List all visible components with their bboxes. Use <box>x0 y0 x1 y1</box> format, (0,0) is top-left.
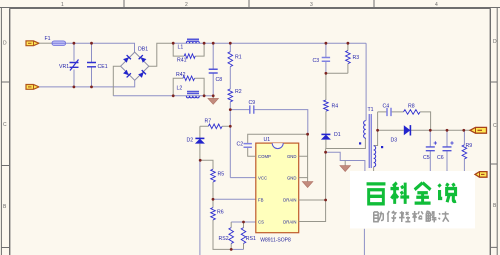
svg-text:C5: C5 <box>423 155 430 161</box>
resistor R8 (snubber) <box>404 103 431 130</box>
wire bridge DC+ jog <box>149 43 173 66</box>
svg-text:R2: R2 <box>235 89 242 95</box>
inductor L1 <box>173 39 204 50</box>
wire DC- return to L2 <box>113 95 173 97</box>
svg-text:VR1: VR1 <box>59 64 69 70</box>
svg-text:2: 2 <box>185 2 188 8</box>
svg-text:R4: R4 <box>332 104 339 110</box>
svg-text:CS: CS <box>258 219 264 224</box>
svg-text:R42: R42 <box>176 72 186 78</box>
svg-text:D3: D3 <box>391 138 398 144</box>
svg-text:D: D <box>3 41 7 47</box>
svg-text:DRAIN: DRAIN <box>283 219 296 224</box>
capacitor C5 <box>423 130 437 171</box>
svg-text:R6: R6 <box>217 210 224 216</box>
resistor R7 <box>200 119 230 129</box>
varistor VR1 <box>59 43 79 87</box>
resistor R5 <box>200 160 224 199</box>
output connector P4 (V-) <box>475 172 487 178</box>
svg-text:RS2: RS2 <box>219 236 229 242</box>
svg-text:FB: FB <box>258 198 264 203</box>
capacitor C6 <box>437 130 454 171</box>
wire AC top rail <box>66 43 135 52</box>
wire aux link <box>326 152 365 171</box>
svg-text:VCC: VCC <box>258 175 267 180</box>
wire secondary output line <box>378 129 470 131</box>
capacitor C9 <box>230 100 307 134</box>
wire DC- after L2 to C8 node <box>204 95 213 97</box>
resistor R1 <box>228 43 242 89</box>
svg-text:3: 3 <box>310 2 313 8</box>
diode D2 <box>187 126 205 160</box>
wire DRAIN pins <box>299 149 326 222</box>
transformer T1 <box>359 43 383 171</box>
wire aux below watermark <box>363 229 365 255</box>
svg-text:C8: C8 <box>216 77 223 83</box>
svg-text:L2: L2 <box>177 85 183 91</box>
svg-text:T1: T1 <box>368 107 374 113</box>
bridge rectifier DB1 <box>121 47 149 81</box>
inductor L2 <box>173 85 204 98</box>
resistor R9 <box>462 130 472 171</box>
ground (IC GND) <box>302 182 313 188</box>
wire bridge DC- jog <box>113 66 120 96</box>
wire drain to primary <box>326 138 366 148</box>
op-amp U1 controller W8911-SOP8 <box>256 137 299 244</box>
wire sense bottom <box>231 248 243 250</box>
svg-text:1: 1 <box>61 2 64 8</box>
svg-text:C: C <box>493 123 497 129</box>
output connector P3 (V+) <box>470 127 487 133</box>
svg-text:R5: R5 <box>218 172 225 178</box>
svg-text:C6: C6 <box>437 155 444 161</box>
capacitor C3 (clamp) <box>313 43 331 73</box>
diode D1 <box>321 111 341 148</box>
resistor R6 <box>211 199 232 249</box>
resistor R41 (parallel with L1) <box>173 43 204 63</box>
svg-text:D: D <box>493 39 497 45</box>
capacitor CE1 <box>87 43 108 87</box>
svg-text:C4: C4 <box>383 103 390 109</box>
svg-text:C9: C9 <box>249 100 256 106</box>
svg-text:COMP: COMP <box>258 154 271 159</box>
capacitor C4 (snubber) <box>378 103 404 116</box>
svg-text:R9: R9 <box>466 143 473 149</box>
svg-text:W8911-SOP8: W8911-SOP8 <box>260 238 291 244</box>
watermark title 百科全说 <box>367 183 456 204</box>
svg-text:C3: C3 <box>313 58 320 64</box>
resistor R4 <box>324 73 339 111</box>
resistor R2 <box>228 89 242 178</box>
svg-text:R3: R3 <box>353 55 360 61</box>
svg-text:R41: R41 <box>177 57 187 63</box>
resistor RS1 <box>241 222 256 249</box>
ground (primary side) <box>340 161 351 172</box>
fuse F1 <box>45 36 66 45</box>
wire FB <box>213 198 256 200</box>
svg-text:F1: F1 <box>45 36 51 42</box>
wire CS <box>231 221 256 223</box>
svg-text:GND: GND <box>287 154 297 159</box>
wire DC+ rail after L1 <box>204 42 366 44</box>
input connector P2 (AC neutral) <box>26 85 39 90</box>
svg-text:U1: U1 <box>264 137 271 143</box>
svg-text:RS1: RS1 <box>246 236 256 242</box>
svg-text:DB1: DB1 <box>138 47 148 53</box>
svg-text:4: 4 <box>435 2 438 8</box>
wire clamp node <box>326 72 348 74</box>
svg-text:CE1: CE1 <box>98 64 108 70</box>
diode D3 <box>391 125 411 143</box>
svg-text:D2: D2 <box>187 138 194 144</box>
wire VCC feed <box>230 177 256 179</box>
svg-text:R1: R1 <box>235 55 242 61</box>
watermark box <box>350 171 475 228</box>
svg-text:C2: C2 <box>237 141 244 147</box>
svg-text:DRAIN: DRAIN <box>283 198 296 203</box>
resistor R3 (clamp) <box>346 43 360 73</box>
wire connector to F1 <box>39 42 52 44</box>
wire AC bottom rail <box>39 80 135 87</box>
wire D2 node down (off sheet) <box>199 160 201 255</box>
capacitor C2 (COMP loop) <box>237 134 308 156</box>
watermark subtitle <box>373 211 449 223</box>
svg-text:GND: GND <box>287 175 297 180</box>
capacitor C8 <box>209 43 223 96</box>
resistor RS2 <box>219 222 234 249</box>
input connector P1 (AC live) <box>26 41 39 46</box>
ground (bulk cap / DC- node) <box>208 96 219 105</box>
svg-text:L1: L1 <box>178 44 184 50</box>
svg-text:R8: R8 <box>408 103 415 109</box>
svg-text:R7: R7 <box>205 119 212 125</box>
svg-text:D1: D1 <box>334 132 341 138</box>
wire GND pins <box>299 134 308 181</box>
resistor R42 (parallel with L2) <box>173 72 204 96</box>
svg-text:C: C <box>3 122 7 128</box>
